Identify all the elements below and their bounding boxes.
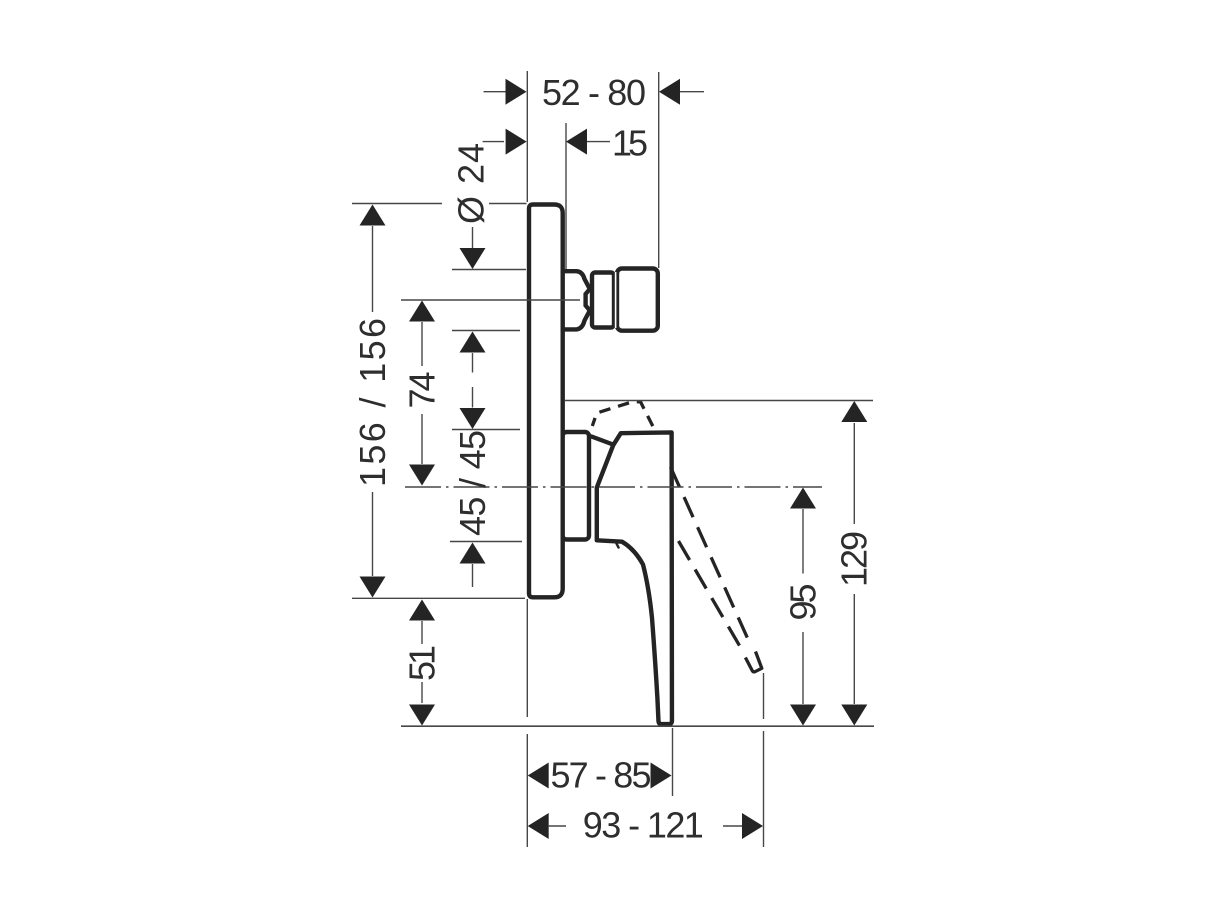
arrow 93-121 right <box>742 813 763 839</box>
dimension lines with arrowheads <box>373 92 855 826</box>
extension line connector end (top) <box>658 72 660 268</box>
arrow 156 down <box>360 577 386 598</box>
arrow 57-85 right <box>651 763 672 789</box>
arrow 156 up <box>360 205 386 226</box>
arrow 45 lower up <box>460 543 486 564</box>
arrow 74 down <box>409 465 435 486</box>
spout connector body <box>617 269 658 331</box>
handle sleeve <box>563 432 589 540</box>
dimension 51 shafts <box>421 621 423 703</box>
extension line plate bottom edge <box>352 597 525 599</box>
arrow 129 down <box>841 705 867 726</box>
extension line ghost lever tip <box>763 673 765 847</box>
arrow 51 up <box>409 600 435 621</box>
arrow 74 up <box>409 301 435 322</box>
thin extension and reference lines <box>352 71 874 847</box>
dimension 95 shafts <box>802 509 804 704</box>
handle cap joint line <box>592 437 614 445</box>
arrow 15 left <box>506 129 527 155</box>
ghost lever left edge <box>679 541 744 653</box>
dimension 15 shafts <box>483 141 610 143</box>
svg-text:93 - 121: 93 - 121 <box>583 804 704 845</box>
extension line plate front (bottom) <box>526 599 528 847</box>
ghost handle top outline <box>592 402 655 432</box>
arrowheads <box>360 79 868 839</box>
arrow 95 up <box>790 488 816 509</box>
dimension 45/45 shafts <box>472 353 474 587</box>
extension line ghost handle peak <box>565 400 873 402</box>
dimension 93-121 shafts <box>549 825 742 827</box>
svg-text:45 / 45: 45 / 45 <box>452 430 493 536</box>
ground reference line <box>401 725 874 727</box>
svg-text:51: 51 <box>401 645 442 681</box>
extension line plate front (top) <box>526 71 528 202</box>
arrow 95 down <box>790 705 816 726</box>
handle centerline (dash-dot) <box>405 486 822 488</box>
extension line connector bottom <box>452 330 520 332</box>
dimension 52-80 shafts <box>484 91 705 93</box>
spout connector neck <box>563 271 590 329</box>
dimension 74 shafts <box>421 322 423 464</box>
arrow 52-80 right <box>659 79 680 105</box>
svg-text:Ø 24: Ø 24 <box>450 143 491 224</box>
arrow 45 down <box>460 408 486 429</box>
extension line plate rear / 15 <box>565 123 567 269</box>
extension line plate top edge <box>352 203 527 205</box>
svg-text:52 - 80: 52 - 80 <box>542 72 646 113</box>
extension line connector top (Ø24) <box>452 269 526 271</box>
wall plate (escutcheon, side view) <box>529 205 563 598</box>
dimension 129 shafts <box>853 423 855 704</box>
ghost lever right edge <box>671 467 752 647</box>
arrow 45 up <box>460 332 486 353</box>
dashed open-position handle ghost <box>592 402 762 672</box>
dimension Ø24 shaft <box>472 227 474 249</box>
spout connector nut <box>592 273 614 328</box>
arrow 51 down <box>409 705 435 726</box>
extension line lever tip <box>672 728 674 796</box>
thick component outlines <box>529 205 672 725</box>
extension line handle bottom <box>450 541 522 543</box>
arrow 52-80 left <box>506 79 527 105</box>
extension line handle top <box>452 429 520 431</box>
small tick on handle underside <box>616 542 619 548</box>
junction gap between nut and body <box>615 272 617 328</box>
svg-text:95: 95 <box>782 584 823 621</box>
svg-text:74: 74 <box>401 372 442 409</box>
svg-text:57 - 85: 57 - 85 <box>551 755 652 796</box>
spout centerline <box>401 299 580 301</box>
arrow 93-121 left <box>528 813 549 839</box>
arrow 57-85 left <box>528 763 549 789</box>
svg-text:156 / 156: 156 / 156 <box>352 318 393 487</box>
arrow 129 up <box>841 401 867 422</box>
dimension labels <box>352 72 875 846</box>
dimension 156/156 shafts <box>372 226 374 576</box>
arrow 15 right <box>566 129 587 155</box>
svg-text:129: 129 <box>834 531 875 587</box>
ghost lever end cap <box>745 652 761 672</box>
arrow Ø24 down <box>460 248 486 269</box>
svg-text:15: 15 <box>612 122 648 163</box>
handle body and lever blade <box>597 432 672 724</box>
